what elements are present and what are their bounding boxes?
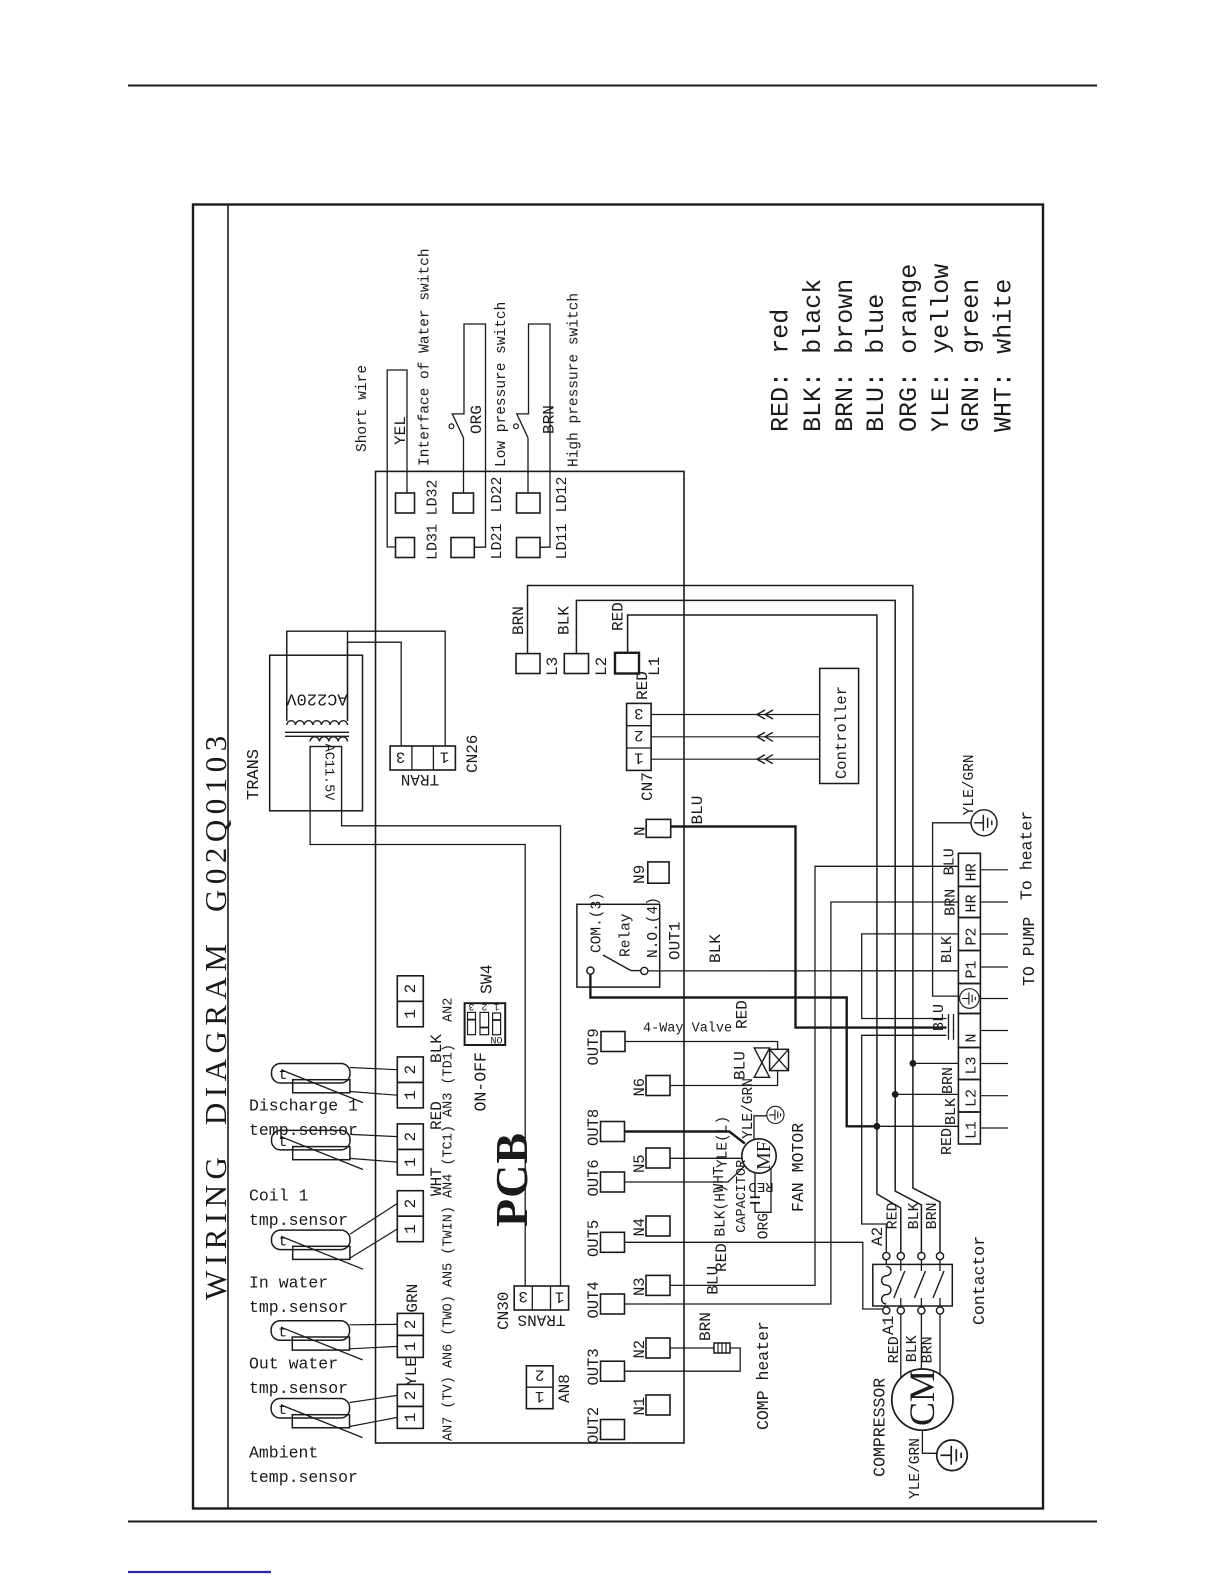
svg-text:green: green — [957, 279, 986, 354]
connector AN5 terminal pair (in water sensor) — [397, 1191, 423, 1217]
svg-text:LD12: LD12 — [554, 476, 571, 512]
OUT2 terminal — [601, 1420, 625, 1440]
stub wire HR — [980, 901, 1008, 903]
svg-text:2: 2 — [402, 984, 420, 994]
OUT5 terminal — [601, 1232, 625, 1252]
svg-text:GRN: GRN — [404, 1284, 422, 1313]
contactor top terminal — [918, 1253, 925, 1260]
N2 terminal — [646, 1338, 670, 1358]
wire ground loop to earth — [933, 823, 971, 996]
svg-text:N5: N5 — [631, 1154, 649, 1173]
svg-text:Ambient: Ambient — [249, 1444, 318, 1463]
page bottom rule — [128, 1521, 1097, 1523]
svg-text:black: black — [799, 279, 828, 354]
N5 terminal — [646, 1148, 670, 1168]
capacitor loop — [754, 1173, 756, 1197]
L3 power terminal — [516, 654, 540, 674]
svg-text:1: 1 — [402, 1157, 420, 1167]
svg-text:2: 2 — [402, 1065, 420, 1075]
svg-text:N9: N9 — [631, 865, 649, 884]
title column line — [227, 205, 229, 1509]
svg-text:BLK: BLK — [906, 1202, 923, 1229]
svg-text:FAN MOTOR: FAN MOTOR — [789, 1123, 808, 1212]
PCB board outline — [376, 471, 685, 1443]
relay NO contact — [641, 967, 648, 974]
svg-text:1: 1 — [402, 1009, 420, 1019]
stub wire L1 — [980, 1127, 1008, 1129]
svg-text:N2: N2 — [631, 1340, 649, 1359]
wire P2 to terminal N (BLU) — [862, 934, 959, 1019]
COMP heater element — [714, 1343, 730, 1353]
svg-text:YLE: YLE — [403, 1357, 421, 1386]
svg-text:t: t — [279, 1067, 288, 1084]
svg-text:CN7: CN7 — [639, 772, 657, 801]
wire CN7-1 to controller — [651, 758, 820, 760]
svg-text:AC220V: AC220V — [286, 688, 348, 707]
svg-text:L3: L3 — [544, 657, 562, 676]
svg-text:SW4: SW4 — [478, 964, 497, 994]
transformer core — [285, 731, 349, 733]
wire to L2 cell — [895, 1093, 958, 1095]
svg-text:2: 2 — [402, 1132, 420, 1142]
wire contactor to compressor RED — [900, 1314, 902, 1378]
connector AN2 terminal pair — [397, 976, 423, 1002]
svg-text:brown: brown — [831, 279, 860, 354]
svg-text:RED: RED — [734, 1000, 752, 1029]
terminal cell P2 — [958, 918, 980, 951]
svg-text:YLE(L): YLE(L) — [715, 1116, 731, 1168]
svg-text:RED:: RED: — [767, 372, 796, 432]
svg-text:YLE/GRN: YLE/GRN — [741, 1078, 757, 1139]
svg-text:OUT8: OUT8 — [585, 1109, 603, 1146]
svg-text:RED: RED — [610, 602, 628, 631]
contactor bottom terminal — [883, 1307, 890, 1314]
svg-text:BRN: BRN — [510, 606, 528, 635]
svg-text:TO PUMP: TO PUMP — [1020, 917, 1039, 986]
svg-text:HR: HR — [964, 863, 981, 881]
stub wire P2 — [980, 933, 1008, 935]
svg-text:red: red — [767, 309, 796, 354]
svg-text:2: 2 — [634, 726, 644, 744]
stub wire L2 — [980, 1095, 1008, 1097]
svg-text:BLK:: BLK: — [799, 372, 828, 432]
capacitor plate 1 — [750, 1196, 760, 1198]
svg-text:LD21: LD21 — [489, 523, 506, 559]
svg-text:1: 1 — [402, 1413, 420, 1423]
fan motor MF circle — [742, 1139, 776, 1173]
wire CN7-2 to controller — [651, 736, 820, 738]
svg-text:N6: N6 — [631, 1078, 649, 1097]
compressor CM circle — [892, 1369, 953, 1430]
svg-text:Contactor: Contactor — [970, 1236, 989, 1325]
contactor pole 1 blade — [894, 1271, 905, 1298]
N9 terminal — [648, 862, 669, 883]
low pressure switch (ORG) — [463, 438, 465, 493]
svg-text:YLE/GRN: YLE/GRN — [908, 1438, 924, 1499]
wire OUT6 to fan motor BLK(H) — [625, 1165, 746, 1182]
junction L3 — [910, 1060, 917, 1067]
contactor pole 3 blade — [933, 1271, 944, 1298]
L2 power terminal — [564, 654, 588, 674]
terminal cell N — [958, 1014, 980, 1048]
svg-text:BRN: BRN — [943, 889, 960, 916]
relay COM contact — [587, 967, 594, 974]
svg-text:2: 2 — [402, 1391, 420, 1401]
svg-text:3: 3 — [396, 747, 406, 765]
svg-text:3: 3 — [468, 1000, 474, 1011]
OUT4 terminal — [601, 1294, 625, 1314]
svg-text:yellow: yellow — [927, 264, 956, 354]
svg-text:1: 1 — [494, 1000, 500, 1011]
connector CN7 — [627, 703, 652, 770]
wire L3 bus to contactor pole 3 — [913, 1063, 940, 1252]
junction L1 — [874, 1123, 881, 1130]
svg-text:WHT:: WHT: — [989, 372, 1018, 432]
contactor bottom terminal — [918, 1307, 925, 1314]
svg-text:BLK: BLK — [428, 1034, 446, 1063]
svg-text:RED: RED — [884, 1202, 901, 1229]
svg-text:YEL: YEL — [392, 416, 410, 445]
diagram border — [193, 205, 1043, 1509]
high pressure switch (BRN) — [527, 438, 529, 493]
short wire jumper (YEL) — [387, 370, 407, 547]
thermistor sensor: Ambient temp.sensor — [271, 1399, 350, 1419]
svg-text:TRAN: TRAN — [401, 770, 439, 788]
svg-text:2: 2 — [535, 1366, 545, 1384]
contactor top terminal — [883, 1253, 890, 1260]
stub wire N — [980, 1030, 1008, 1032]
svg-text:AC11.5V: AC11.5V — [320, 744, 335, 802]
contactor bottom terminal — [936, 1307, 943, 1314]
OUT8 terminal — [601, 1122, 625, 1142]
Controller box — [820, 668, 859, 783]
svg-text:2: 2 — [481, 1000, 487, 1011]
svg-text:CN30: CN30 — [495, 1292, 513, 1330]
contactor bottom terminal — [897, 1307, 904, 1314]
DIP switch SW4 — [465, 1003, 506, 1045]
secondary box — [310, 747, 342, 811]
svg-text:OUT1: OUT1 — [667, 922, 685, 960]
wire OUT9 to 4-way valve (RED) — [625, 1042, 778, 1050]
contactor coil — [882, 1266, 891, 1304]
wire OUT5 to contactor A1 — [625, 1242, 883, 1309]
svg-text:AN2: AN2 — [442, 998, 457, 1022]
OUT3 terminal — [601, 1361, 625, 1381]
footer link line — [128, 1571, 271, 1573]
connector CN30 (TRANS) — [514, 1286, 568, 1310]
connector CN26 (TRAN) — [390, 746, 455, 770]
svg-text:N3: N3 — [631, 1277, 649, 1296]
svg-text:t: t — [278, 1402, 287, 1419]
svg-text:N.O.(4): N.O.(4) — [646, 897, 662, 958]
svg-text:ON-OFF: ON-OFF — [472, 1052, 491, 1111]
wire CN7-3 to controller — [651, 714, 820, 716]
svg-text:OUT4: OUT4 — [585, 1281, 603, 1318]
OUT6 terminal — [601, 1172, 625, 1192]
svg-text:blue: blue — [862, 294, 891, 354]
contactor top terminal — [897, 1253, 904, 1260]
thermistor sensor: In water tmp.sensor — [272, 1230, 351, 1250]
svg-text:RED: RED — [634, 671, 652, 700]
svg-text:N1: N1 — [631, 1397, 649, 1416]
wire to L3 cell — [913, 1062, 959, 1064]
LD12 terminal — [517, 493, 541, 513]
svg-text:N: N — [964, 1033, 981, 1042]
wire relay NO to P1 (BLK) — [648, 970, 959, 972]
svg-text:Discharge 1: Discharge 1 — [249, 1097, 358, 1116]
wire fan motor to ground — [754, 1116, 767, 1140]
N terminal (PCB) — [646, 819, 671, 837]
svg-text:RED: RED — [428, 1101, 446, 1130]
stub wire GND — [980, 998, 1008, 1000]
svg-text:P2: P2 — [964, 927, 981, 945]
svg-text:GRN:: GRN: — [957, 372, 986, 432]
svg-text:Coil 1: Coil 1 — [249, 1187, 309, 1206]
connector AN8 — [526, 1366, 553, 1409]
svg-text:ORG: ORG — [756, 1213, 772, 1239]
svg-text:OUT2: OUT2 — [585, 1407, 603, 1444]
SW4 channel 1 — [493, 1013, 501, 1035]
svg-text:Short wire: Short wire — [355, 365, 371, 452]
wire relay COM to L1 junction (thick) — [590, 974, 877, 1126]
svg-text:COM.(3): COM.(3) — [590, 892, 606, 953]
svg-text:BLU: BLU — [941, 848, 958, 875]
wire COMP heater to OUT3 — [625, 1348, 741, 1371]
svg-text:AN8: AN8 — [556, 1374, 574, 1403]
svg-text:tmp.sensor: tmp.sensor — [249, 1211, 348, 1230]
svg-text:TRANS: TRANS — [245, 749, 264, 800]
svg-text:LD31: LD31 — [424, 524, 441, 560]
connector AN4 terminal pair (coil sensor) — [397, 1124, 423, 1150]
svg-text:2: 2 — [402, 1199, 420, 1209]
svg-text:Out water: Out water — [249, 1355, 338, 1374]
svg-text:CAPACITOR: CAPACITOR — [735, 1160, 750, 1233]
wire L2 bus — [576, 600, 895, 1094]
wire 4-way valve to N6 (BLU) — [670, 1071, 778, 1086]
svg-text:OUT9: OUT9 — [585, 1028, 603, 1065]
SW4 channel 3 — [468, 1012, 476, 1034]
LD32 terminal — [396, 493, 415, 513]
page top rule — [128, 85, 1097, 87]
svg-text:OUT3: OUT3 — [585, 1348, 603, 1385]
wire L3 bus — [528, 586, 913, 1064]
svg-text:3: 3 — [634, 704, 644, 722]
wire L1 bus — [628, 615, 877, 1126]
stub wire HR — [980, 869, 1008, 871]
svg-text:tmp.sensor: tmp.sensor — [249, 1379, 348, 1398]
thermistor sensor: Coil 1 tmp.sensor — [272, 1130, 351, 1150]
wire to L1 cell — [877, 1125, 959, 1127]
svg-text:TRANS: TRANS — [517, 1310, 565, 1328]
wire secondary to CN30 pin3 — [310, 811, 525, 1286]
svg-text:P1: P1 — [964, 960, 981, 978]
svg-text:1: 1 — [402, 1342, 420, 1352]
thermistor sensor: Out water tmp.sensor — [271, 1321, 350, 1341]
svg-text:Interface of Water switch: Interface of Water switch — [418, 248, 434, 466]
svg-text:L1: L1 — [964, 1121, 981, 1139]
svg-text:BRN: BRN — [924, 1202, 941, 1229]
connector AN3 terminal pair (discharge sensor) — [397, 1057, 423, 1083]
svg-text:RED: RED — [713, 1243, 731, 1272]
wire L2 bus to contactor pole 2 — [895, 1094, 921, 1252]
wire compressor to ground — [922, 1430, 936, 1453]
svg-text:1: 1 — [535, 1387, 545, 1405]
terminal cell HR — [958, 853, 980, 886]
svg-text:CN26: CN26 — [464, 735, 482, 773]
terminal cell GND — [958, 984, 980, 1014]
svg-text:BRN: BRN — [697, 1312, 715, 1341]
svg-text:MF: MF — [753, 1141, 775, 1170]
thermistor sensor: Discharge 1 temp.sensor — [272, 1064, 351, 1084]
wire secondary to CN30 pin1 — [342, 811, 561, 1286]
svg-text:tmp.sensor: tmp.sensor — [249, 1298, 348, 1317]
svg-text:YLE/GRN: YLE/GRN — [962, 754, 978, 815]
svg-text:temp.sensor: temp.sensor — [249, 1468, 358, 1487]
terminal cell L2 — [958, 1080, 980, 1113]
svg-text:Relay: Relay — [619, 913, 635, 957]
4-way valve box — [770, 1049, 789, 1070]
svg-text:BLK: BLK — [556, 606, 574, 635]
relay blade — [603, 955, 631, 971]
svg-text:PCB: PCB — [486, 1132, 537, 1227]
wire L1 bus to contactor pole 1 — [877, 1126, 901, 1252]
stub wire L3 — [980, 1063, 1008, 1065]
svg-text:RED: RED — [939, 1128, 956, 1155]
svg-text:white: white — [989, 279, 1018, 354]
svg-text:2: 2 — [402, 1320, 420, 1330]
wire contactor A2 to terminal N — [862, 1035, 947, 1252]
svg-text:4-Way Valve: 4-Way Valve — [643, 1022, 732, 1037]
svg-text:t: t — [279, 1234, 288, 1251]
compressor ground symbol — [937, 1440, 968, 1471]
svg-text:BRN: BRN — [940, 1067, 957, 1094]
svg-text:Low pressure switch: Low pressure switch — [494, 302, 510, 467]
transformer primary winding AC220V — [287, 631, 348, 725]
L1 power terminal — [615, 653, 639, 674]
svg-text:orange: orange — [895, 264, 924, 354]
svg-text:ORG: ORG — [468, 405, 486, 434]
wire N5 to fan motor WHT — [670, 1157, 742, 1159]
svg-text:3: 3 — [518, 1287, 528, 1305]
junction L2 — [892, 1091, 899, 1098]
svg-text:Controller: Controller — [833, 686, 851, 779]
connector AN6 terminal pair (out water sensor) — [397, 1313, 423, 1335]
contactor top terminal — [936, 1253, 943, 1260]
svg-text:t: t — [278, 1324, 287, 1341]
svg-text:COMPRESSOR: COMPRESSOR — [871, 1378, 890, 1477]
terminal strip ground symbol — [960, 989, 980, 1009]
svg-text:BLK: BLK — [939, 936, 956, 963]
svg-text:L2: L2 — [593, 657, 611, 676]
svg-text:CM: CM — [902, 1370, 942, 1426]
svg-text:LD11: LD11 — [554, 523, 571, 559]
capacitor plate 2 — [750, 1202, 760, 1204]
svg-text:L2: L2 — [964, 1089, 981, 1107]
svg-text:OUT5: OUT5 — [585, 1220, 603, 1257]
wire OUT4 to HR2 (BRN) — [625, 902, 959, 1304]
terminal cell L1 — [958, 1112, 980, 1144]
LD31 terminal — [396, 538, 415, 558]
svg-text:1: 1 — [555, 1287, 565, 1305]
svg-text:HR: HR — [964, 894, 981, 912]
svg-text:RED: RED — [748, 1178, 773, 1194]
LD11 terminal — [517, 538, 541, 558]
svg-text:BLU: BLU — [689, 796, 707, 825]
N3 terminal — [646, 1275, 670, 1295]
svg-text:1: 1 — [440, 747, 450, 765]
wire N3 to HR1 (BLU) — [670, 866, 958, 1285]
wire primary to CN26 pin3 — [348, 642, 402, 746]
svg-text:YLE:: YLE: — [927, 372, 956, 432]
transformer TRANS box — [270, 655, 363, 811]
svg-text:1: 1 — [402, 1090, 420, 1100]
svg-text:LD32: LD32 — [424, 479, 441, 515]
svg-text:WHT: WHT — [428, 1167, 446, 1196]
4-way valve symbol — [754, 1048, 769, 1063]
svg-text:BLU:: BLU: — [862, 372, 891, 432]
svg-text:L3: L3 — [964, 1056, 981, 1074]
svg-text:BLU: BLU — [931, 1004, 948, 1031]
connector AN7 terminal pair (ambient sensor) — [397, 1384, 423, 1406]
terminal cell P1 — [958, 951, 980, 984]
terminal cell L3 — [958, 1048, 980, 1080]
svg-text:1: 1 — [402, 1224, 420, 1234]
wire OUT8 to fan motor YLE(L) — [625, 1132, 745, 1144]
SW4 channel 2 — [480, 1012, 489, 1034]
svg-text:BLU: BLU — [732, 1051, 750, 1080]
svg-text:ORG:: ORG: — [895, 372, 924, 432]
svg-text:LD22: LD22 — [489, 476, 506, 512]
svg-text:BLK: BLK — [943, 1098, 960, 1125]
svg-text:N: N — [632, 826, 650, 836]
stub wire P1 — [980, 966, 1008, 968]
wire N to terminal N (BLU thick) — [671, 827, 947, 1028]
svg-text:BLK(H): BLK(H) — [714, 1184, 730, 1236]
wire contactor to compressor BLK — [920, 1314, 922, 1369]
N4 terminal — [646, 1216, 670, 1236]
svg-text:N4: N4 — [631, 1218, 649, 1237]
svg-text:WIRING DIAGRAM G02Q0103: WIRING DIAGRAM G02Q0103 — [198, 730, 233, 1300]
OUT9 terminal — [601, 1032, 625, 1052]
N1 terminal — [646, 1395, 670, 1415]
svg-text:1: 1 — [634, 748, 644, 766]
svg-text:OUT6: OUT6 — [585, 1159, 603, 1196]
fan motor ground — [767, 1106, 784, 1123]
svg-text:NO: NO — [491, 1037, 503, 1048]
contactor box — [873, 1264, 953, 1306]
contactor pole 2 blade — [914, 1271, 925, 1298]
N6 terminal — [646, 1076, 670, 1096]
svg-text:In water: In water — [249, 1274, 328, 1293]
wire primary to CN26 pin1 — [287, 631, 445, 746]
wire break ticks at N cell — [948, 1014, 950, 1023]
LD22 terminal — [453, 493, 474, 513]
svg-text:t: t — [279, 1134, 288, 1151]
svg-text:To heater: To heater — [1018, 811, 1037, 900]
relay box — [577, 904, 660, 987]
svg-text:BRN:: BRN: — [831, 372, 860, 432]
svg-text:BRN: BRN — [920, 1336, 937, 1363]
svg-text:High pressure switch: High pressure switch — [567, 293, 583, 467]
LD21 terminal — [451, 538, 474, 558]
svg-text:COMP heater: COMP heater — [754, 1321, 773, 1430]
svg-text:A1: A1 — [880, 1316, 898, 1335]
terminal cell HR — [958, 886, 980, 917]
wire contactor to compressor BRN — [939, 1314, 941, 1374]
svg-text:BRN: BRN — [541, 405, 559, 434]
wire N2 to COMP heater (BRN) — [670, 1347, 714, 1349]
transformer secondary winding AC11.5V — [310, 737, 347, 742]
